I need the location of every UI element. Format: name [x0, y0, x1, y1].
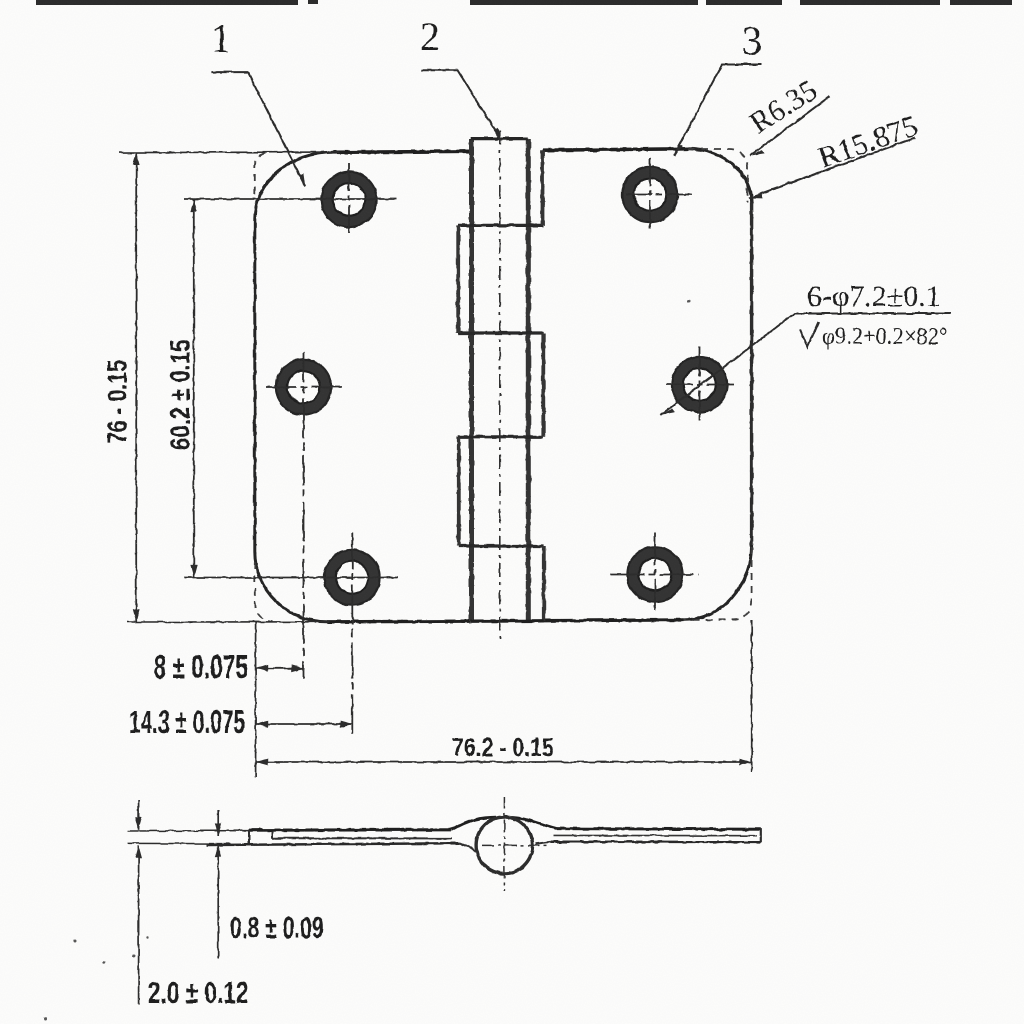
section knuckle circle: [476, 817, 532, 873]
section knuckle vertical centerline: [503, 797, 505, 891]
section knuckle top approach left: [452, 817, 496, 830]
dashed alternative corner bottom-right: [684, 547, 752, 620]
section right arm top contour: [557, 827, 761, 831]
radius callout R6.35: [744, 74, 829, 156]
dimension 76.2 line: [256, 733, 752, 765]
scan artifact dashes top edge: [36, 0, 1012, 5]
scan specks: [44, 300, 691, 1021]
radius callout R15.875: [749, 109, 922, 198]
left leaf top edge: [333, 151, 471, 152]
hole bottom-right: [611, 533, 699, 615]
dimension 76-0.15 extension bottom: [127, 621, 330, 623]
knuckle segment 3 right edge: [541, 333, 545, 437]
section left arm bottom contour: [207, 843, 460, 845]
knuckle divider 2: [458, 331, 543, 334]
left leaf left edge: [253, 218, 256, 552]
right leaf bottom edge: [544, 618, 685, 622]
section right arm inner line: [553, 834, 757, 836]
knuckle segment 5 right edge: [542, 546, 546, 621]
dashed alternative corner top-left: [255, 153, 269, 194]
hole bottom-left: [324, 533, 379, 736]
left leaf top-left corner arc: [255, 152, 333, 218]
section knuckle bottom merge right: [536, 842, 551, 844]
section left arm top extension thin: [128, 830, 250, 832]
right leaf top-right corner arc: [688, 149, 752, 203]
hole middle-left: [267, 352, 343, 679]
dimension 60.2 extension bottom: [184, 577, 398, 579]
knuckle top cap: [470, 137, 528, 140]
section left arm end cap: [248, 830, 250, 844]
section knuckle horizontal centerline: [482, 844, 550, 846]
dimension 76-0.15 extension top: [119, 151, 341, 154]
leader 1: [211, 16, 305, 186]
dimension 60.2 extension top: [184, 198, 397, 200]
knuckle segment 1 right edge: [541, 150, 545, 225]
knuckle centerline: [499, 131, 501, 639]
section left arm top contour: [249, 828, 452, 832]
section knuckle bottom merge left: [460, 843, 475, 852]
hole top-right: [622, 158, 696, 232]
dimension 60.2 line: [165, 199, 197, 578]
hole top-left: [321, 163, 376, 235]
knuckle divider 4: [459, 544, 544, 547]
dimension 14.3 line: [129, 705, 353, 741]
hole callout leader 6-phi7.2: [661, 280, 951, 415]
leader 3: [674, 18, 762, 156]
countersink symbol: [800, 322, 819, 347]
dimension 0.8 line: [215, 810, 324, 958]
right leaf top edge: [543, 149, 689, 150]
left leaf bottom edge: [327, 620, 471, 624]
leader 2: [420, 14, 501, 140]
section left arm bottom extension thin: [128, 842, 231, 844]
knuckle pin right line: [526, 139, 531, 621]
dimension 2.0 line: [135, 800, 248, 1010]
section right arm end cap: [760, 829, 762, 843]
dashed alternative corner top-right: [688, 149, 748, 203]
knuckle divider 1: [458, 224, 543, 227]
knuckle pin left line: [469, 139, 474, 621]
dimension 8 line: [154, 649, 305, 685]
left leaf bottom-left corner arc: [255, 552, 327, 622]
knuckle divider 3: [458, 435, 543, 438]
left edge extension line below: [255, 622, 257, 777]
right leaf right edge: [750, 203, 753, 545]
knuckle bottom edge: [471, 619, 544, 623]
right edge extension line below: [751, 620, 753, 772]
knuckle segment 4 left edge: [457, 437, 461, 546]
dashed alternative corner bottom-left: [255, 562, 273, 622]
knuckle segment 2 left edge: [456, 225, 460, 333]
hole middle-right: [666, 347, 737, 425]
section right arm bottom contour: [551, 841, 761, 844]
dimension 76-0.15 line: [102, 152, 140, 621]
section left arm inner seam line: [272, 831, 452, 838]
right leaf bottom-right corner arc: [684, 545, 752, 620]
section knuckle top approach right: [512, 817, 557, 828]
